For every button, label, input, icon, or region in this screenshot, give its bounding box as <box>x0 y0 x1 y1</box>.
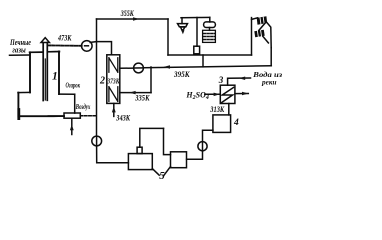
wire: riser to drying coolers top <box>251 18 253 55</box>
furnace 1 base right wall <box>74 94 76 113</box>
wire: tank 5b to overhead pipe <box>164 128 171 154</box>
wire: cooler 3 water pipe <box>228 78 251 85</box>
heat exchanger 2 body <box>107 55 120 104</box>
343К stub below exchanger 2 <box>113 104 115 117</box>
tank 5a neck <box>137 147 142 153</box>
cyclone body (trapezoid) <box>178 24 188 27</box>
valve stem on cleaning line <box>196 18 198 47</box>
furnace 1 base top edges <box>18 92 75 94</box>
acid outlet arrow (tip right) <box>242 92 248 96</box>
label 5 leader lines <box>152 167 170 176</box>
pump P2 (circle) <box>198 142 207 151</box>
air intake stub below blower <box>71 118 73 134</box>
flow arrow on return line (tip left) <box>164 65 170 69</box>
svg-text:335К: 335К <box>134 93 149 102</box>
drying cooler middle duct <box>259 23 265 30</box>
svg-text:Огарок: Огарок <box>66 81 81 90</box>
svg-text:3: 3 <box>218 75 224 85</box>
furnace 1 (pyrite roaster) upper shaft walls <box>30 52 59 95</box>
wire: cooler outlet down to return line <box>270 48 272 66</box>
drying cooler inlet bend <box>252 18 258 20</box>
gas blower B through-line <box>135 67 143 69</box>
air blower box <box>64 113 80 118</box>
drying cooler box 1 (hatched) <box>257 16 268 25</box>
svg-text:2: 2 <box>99 76 105 87</box>
precipitator stem <box>209 17 211 22</box>
furnace 1 inner tube line <box>44 59 46 100</box>
cooler 3 coil Z <box>221 87 233 102</box>
flow arrow on 335К line (tip left) <box>129 91 135 95</box>
wire: Печные газы inlet line <box>10 54 30 56</box>
svg-text:473К: 473К <box>57 33 72 42</box>
pump P1 (circle) <box>92 136 102 146</box>
wire: right vertical from 355К line <box>167 19 169 55</box>
svg-text:Воздух: Воздух <box>75 102 90 111</box>
H2SO4 inlet arrow (tip right) <box>214 93 220 97</box>
svg-text:реки: реки <box>261 78 276 87</box>
gas blower A outlet tick <box>90 41 96 44</box>
svg-text:H2SO4: H2SO4 <box>185 90 208 101</box>
svg-text:343К: 343К <box>116 113 131 122</box>
drying cooler right duct <box>266 22 271 48</box>
wire: exchanger 2 outlet to blower B <box>120 67 134 69</box>
wire: step from junction into exchanger 2 top <box>97 42 112 55</box>
furnace 1 top edge <box>30 51 60 54</box>
wire: tank 4 to pump P2 <box>203 130 213 142</box>
wire: dashed air duct from blower to vertical <box>80 115 95 117</box>
drying cooler outlet duct <box>263 36 269 43</box>
svg-text:395К: 395К <box>173 70 190 79</box>
wire: 335К line into exchanger 2 <box>120 92 151 94</box>
svg-text:4: 4 <box>233 118 239 128</box>
wire: drop from middle line to return line <box>202 55 204 67</box>
svg-text:1: 1 <box>52 71 58 83</box>
svg-text:газы: газы <box>12 46 26 55</box>
wire: dashed 473К gas duct from furnace to blower A <box>48 44 82 46</box>
pump P1 through-line <box>96 136 98 146</box>
cyclone stem <box>181 18 183 24</box>
wire: gas cleaning header line <box>181 16 210 18</box>
tank 5b body <box>171 152 187 168</box>
svg-text:373К: 373К <box>107 76 121 85</box>
wire: main left vertical (355К riser / pump line) <box>96 19 98 136</box>
furnace 1 central tube <box>43 43 47 101</box>
wire: long return gas line to the right section <box>143 66 271 68</box>
air intake arrow (tip up) <box>70 124 74 130</box>
furnace 1 tube outlet arrow (outline, tip up) <box>41 38 49 43</box>
wire: junction drop to 335К line <box>150 67 152 93</box>
wire: overhead pipe <box>140 128 164 147</box>
tank 5a body <box>128 154 152 170</box>
svg-text:355К: 355К <box>120 9 134 18</box>
343К arrow (tip up) <box>112 106 116 112</box>
wire: acid outlet line <box>235 93 248 95</box>
flow arrow on 355К line (tip right) <box>133 17 139 21</box>
svg-text:313К: 313К <box>209 105 224 114</box>
cyclone dust arrow (tip down) <box>181 30 184 34</box>
precipitator cap stem <box>209 28 211 31</box>
heat exchanger 2 lower coil zigzag <box>109 87 118 102</box>
gas blower A (circle) <box>82 41 93 52</box>
drying cooler box 2 (hatched) <box>254 30 264 38</box>
wire: H2SO4 inlet line <box>205 93 220 95</box>
valve body <box>194 46 200 54</box>
wire: top 355К line <box>97 18 169 20</box>
precipitator grid box <box>203 30 216 42</box>
wire: middle horizontal line to drying coolers <box>168 54 252 56</box>
cyclone funnel <box>181 27 185 30</box>
precipitator grid rows <box>203 34 215 40</box>
heat exchanger 2 upper coil zigzag <box>109 58 118 72</box>
tank 4 body <box>213 115 231 132</box>
furnace 1 base bottom (dashed grate) <box>19 115 64 117</box>
wire: cooler 3 to tank 4 <box>228 104 230 115</box>
cooler 3 body <box>220 85 235 103</box>
gas blower A center dash <box>85 45 89 47</box>
furnace 1 base bottom-left thick corner <box>17 110 20 119</box>
svg-text:5: 5 <box>159 170 165 182</box>
pump P2 through-line <box>202 142 204 150</box>
water arrow (tip left) <box>239 77 245 81</box>
furnace 1 base left wall <box>17 93 19 117</box>
wire: pump P2 suction from tank 5b <box>187 151 203 160</box>
gas blower B (circle) <box>134 63 144 73</box>
precipitator cap <box>204 22 216 28</box>
wire: pump P1 discharge to tank 5a <box>97 146 129 163</box>
